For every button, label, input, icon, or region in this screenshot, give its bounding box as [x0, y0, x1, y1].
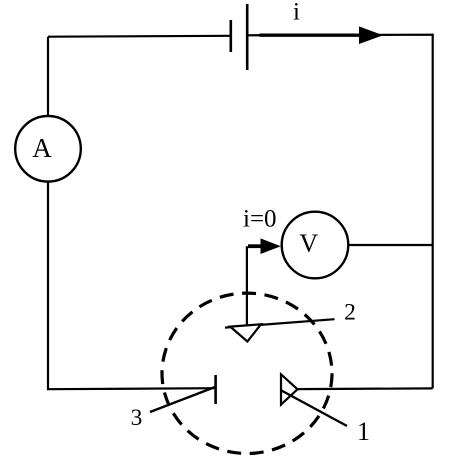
arrow i=0 into voltmeter — [248, 238, 281, 254]
wire: voltmeter right terminal to right side wire — [348, 244, 432, 246]
electrode 3 pointer line — [150, 387, 215, 412]
wire: left side from ammeter to bottom-left corner — [47, 182, 49, 390]
ammeter A1 circle — [15, 116, 81, 182]
wire: bottom-left horizontal to electrode 3 plate — [47, 388, 216, 389]
electrode 1 pointer line — [281, 390, 348, 426]
wire: top side right segment from battery to top-right corner — [247, 35, 433, 245]
electrode 1 (right-pointing triangle) — [281, 374, 298, 404]
voltmeter V1 circle — [282, 212, 349, 279]
svg-text:1: 1 — [357, 417, 370, 446]
svg-text:2: 2 — [344, 299, 356, 325]
battery cell positive plate (long) — [246, 4, 249, 70]
battery cell negative plate (short) — [230, 20, 233, 52]
svg-text:i=0: i=0 — [243, 206, 277, 233]
electrode 2 (downward triangle) — [230, 324, 261, 341]
electrode 3 (plate) — [214, 375, 217, 404]
current arrow i (top) — [260, 26, 384, 44]
svg-text:i: i — [293, 0, 300, 26]
svg-text:3: 3 — [131, 405, 143, 431]
phototube envelope (dashed circle) — [162, 293, 332, 453]
svg-text:V: V — [299, 229, 318, 258]
wire: top-left horizontal from corner to battery — [47, 37, 49, 116]
svg-text:A: A — [32, 133, 52, 163]
wire: right side vertical down to bottom-right corner — [432, 245, 434, 388]
wire: bottom-right horizontal to electrode 1 — [298, 387, 433, 390]
wire: top side left segment — [48, 35, 231, 38]
wire: from arrow corner down to electrode 2 — [246, 246, 248, 326]
electrode 2 pointer line — [225, 319, 335, 327]
